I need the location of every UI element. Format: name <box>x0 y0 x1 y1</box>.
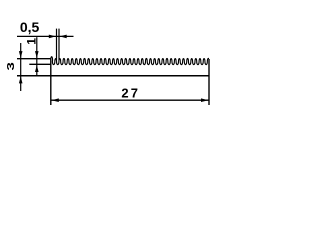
extension line tooth-top level (for dims 3 and 1) <box>17 58 51 60</box>
arrowhead 27 left (points left at profile left edge) <box>51 98 58 102</box>
dimension line 27 <box>51 99 209 101</box>
extension line right flank of measured tooth <box>58 29 60 61</box>
arrowhead 1 bottom (points up at tooth-root line) <box>35 65 39 72</box>
arrowhead 27 right (points right at profile right edge) <box>201 98 208 102</box>
svg-text:1: 1 <box>25 38 39 45</box>
dimension line 1 (vertical) <box>36 37 38 76</box>
rack profile bottom edge (extends left as extension line for 3) <box>17 75 209 77</box>
extension line tooth-root level (for dim 1) <box>29 63 51 65</box>
rack profile right edge (also 27 extension line) <box>208 59 210 105</box>
rack profile toothed top edge <box>51 57 209 65</box>
svg-text:27: 27 <box>121 86 140 101</box>
extension line left flank of measured tooth <box>56 29 58 61</box>
dimension line 0,5 <box>17 35 74 37</box>
dimension line 3 (vertical) <box>20 43 22 91</box>
arrowhead 0,5 right (points left at tooth flank) <box>60 35 67 39</box>
arrowhead 0,5 left (points right at tooth flank) <box>49 35 56 39</box>
svg-text:3: 3 <box>4 62 16 70</box>
arrowhead 3 bottom (points up at profile bottom line) <box>19 76 23 83</box>
arrowhead 3 top (points down at tooth-top line) <box>19 51 23 58</box>
rack profile left edge (also 27 extension line) <box>50 59 52 106</box>
svg-text:0,5: 0,5 <box>20 19 40 35</box>
arrowhead 1 top (points down at tooth-top line) <box>35 51 39 58</box>
